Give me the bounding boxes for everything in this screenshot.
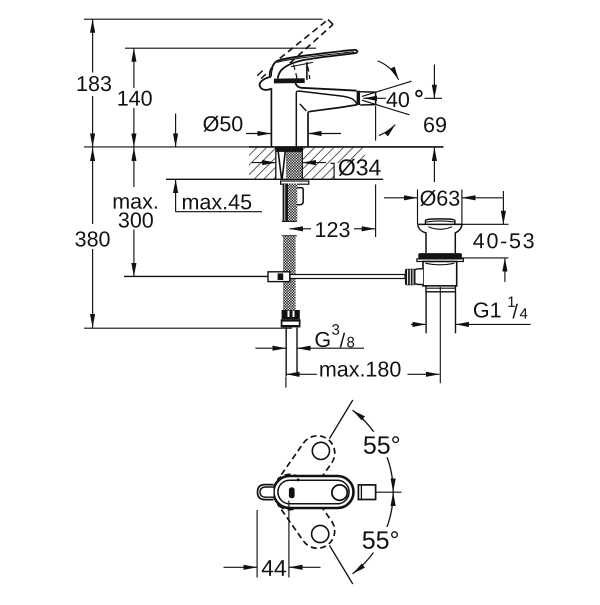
dimension Ø34 right arrow [302, 162, 326, 164]
drain plug cap face line [427, 220, 454, 223]
plan view 55 degree upper ray [330, 400, 353, 439]
handle crease line [291, 62, 313, 66]
svg-text:Ø34: Ø34 [338, 154, 382, 180]
40 degree lower ray [362, 100, 409, 115]
drain body [423, 262, 457, 286]
pop-up rod clamp screw [278, 273, 284, 280]
shank top shadow band under base [276, 147, 303, 152]
drain flange rim arc [428, 227, 452, 230]
drain flange left side [418, 224, 426, 253]
svg-text:max.45: max.45 [182, 190, 253, 214]
threaded shank in hole (braided texture) [286, 148, 302, 179]
extension line top (raised handle tip level) [84, 18, 323, 20]
svg-text:Ø50: Ø50 [203, 112, 244, 136]
dimension 140 line upper [133, 48, 135, 88]
drain Ø63 extension line right [461, 190, 463, 225]
countertop top surface line [249, 146, 444, 148]
drain collar band line [426, 287, 455, 289]
extension line aerator axis [425, 97, 443, 99]
pop-up rod outlined section to drain [290, 275, 405, 279]
drain plug cap [426, 219, 455, 224]
drain collar [426, 286, 455, 292]
max45 underline [176, 211, 262, 213]
dimension G1 1/4 left arrow [411, 323, 426, 325]
pop-up rod horizontal thin section [124, 275, 268, 277]
svg-text:G1: G1 [473, 298, 502, 322]
dimension 123 leader right [354, 228, 362, 230]
spout tab inner line [260, 487, 274, 497]
drain body top arc [426, 263, 455, 265]
dimension 123 left arrow [289, 228, 303, 230]
plan view swivel arc upper [353, 410, 394, 492]
dimension Ø34 left arrow [252, 162, 276, 164]
plan view swivel arc lower [353, 493, 394, 574]
svg-text:40: 40 [386, 88, 410, 112]
dimension Ø63 right arrow [476, 197, 503, 199]
spout tab plan [258, 485, 274, 500]
dimension G38 line right [310, 347, 364, 349]
raised handle dashed upper edge [280, 20, 328, 59]
dimension 380 line upper [92, 148, 94, 224]
svg-text:max.180: max.180 [319, 357, 402, 381]
extension line plug top [455, 223, 509, 225]
plan view 55 degree lower ray [330, 546, 353, 585]
svg-text:44: 44 [261, 555, 287, 581]
svg-text:183: 183 [76, 72, 112, 96]
40 degree symbol circle [416, 91, 422, 97]
dimension 40-53 upper arrow [502, 191, 504, 224]
extension line hose end [285, 377, 287, 388]
svg-text:55°: 55° [363, 432, 401, 460]
dimension max45 upper arrow [175, 114, 177, 147]
dimension Ø63 left arrow [384, 197, 403, 199]
spout top edge [295, 83, 356, 91]
drain Ø63 extension line left [417, 190, 419, 225]
faucet base right edge [307, 112, 309, 146]
svg-text:Ø63: Ø63 [420, 187, 461, 211]
countertop notch edge at Ø34 label [331, 163, 335, 179]
dimension max180 leader left [299, 373, 317, 375]
braided flex hose lower section [283, 236, 296, 310]
aerator outlet box [360, 92, 375, 105]
raised handle dashed lower edge [290, 24, 333, 63]
svg-text:123: 123 [315, 218, 351, 242]
dimension 183 line upper [92, 19, 94, 72]
dimension G1 1/4 leader right [469, 323, 531, 325]
spout front arris line [296, 91, 357, 104]
mounting washer under deck [281, 181, 309, 184]
cartridge circle [332, 485, 347, 500]
dimension G38 right arrow [297, 347, 310, 349]
faucet inner contour line [295, 92, 297, 147]
extension line 44 left [256, 510, 258, 578]
drain flange right side [455, 224, 462, 253]
hose break mark lower [282, 235, 297, 237]
screw hole circle lower [312, 525, 329, 542]
hose end nut lower flange [281, 319, 301, 327]
hose end nut upper [282, 310, 300, 319]
G3/8 hose tail [286, 328, 297, 377]
dimension 69 upper arrow [433, 65, 435, 99]
handle capsule inner contour [278, 480, 349, 504]
white backing for 55 labels [361, 432, 404, 458]
40 degree upper ray [362, 81, 412, 96]
svg-text:380: 380 [75, 227, 111, 251]
extension line at hose nut bottom [84, 327, 292, 329]
svg-text:55°: 55° [362, 527, 400, 555]
hose end nut lower white band [282, 322, 298, 325]
countertop hatched slab right of hole [302, 148, 334, 179]
svg-text:40-53: 40-53 [473, 229, 537, 253]
dimension 123 leader left [304, 228, 312, 230]
fixing wedge in hole [278, 152, 285, 179]
dimension max45 lower arrow [175, 179, 177, 211]
aerator dark band [357, 91, 361, 105]
aerator stub plan [358, 485, 375, 500]
dimension G38 left arrow [273, 347, 286, 349]
raised handle tip cap dash [328, 20, 333, 25]
countertop hatched upper band right [334, 148, 365, 163]
dimension Ø50 left arrow [246, 133, 271, 135]
handle inner top line [277, 52, 355, 62]
handle lever outline [260, 50, 358, 90]
index blob [289, 487, 295, 498]
faucet body upper right edge [306, 62, 308, 80]
handle capsule plan outline [274, 476, 354, 508]
smooth tube left of braided hose (dark with highlight) [283, 184, 288, 221]
mounting hole right edge [301, 147, 303, 179]
40 degree leader arrow [363, 97, 385, 99]
hose end nut slits [289, 311, 294, 317]
dimension 140 line lower [133, 108, 135, 147]
drain flange top [418, 223, 462, 225]
dimension 183 line lower [92, 96, 94, 147]
spout underside [308, 105, 357, 113]
drain tailpipe left edge [425, 292, 427, 333]
dimension 123 right arrow [362, 228, 376, 230]
dashed rotated handle lower [266, 468, 342, 555]
hose break mark upper [282, 220, 297, 222]
drain knob ridges [408, 269, 413, 284]
svg-text:3: 3 [331, 322, 339, 339]
faucet base left edge [270, 82, 272, 147]
dimension max180 leader right [408, 373, 427, 375]
svg-text:G: G [314, 328, 331, 352]
dimension 44 left arrow [224, 566, 245, 568]
extension line handle top level [125, 47, 316, 49]
40 degree lower arc [379, 125, 396, 136]
pop-up rod stub bracket [296, 188, 304, 205]
pop-up rod clamp fitting [268, 272, 290, 282]
40 degree upper arc [378, 61, 399, 80]
braided flex hose upper section [288, 184, 297, 221]
countertop hatched slab left of hole [249, 148, 276, 179]
spout shadow tick [300, 104, 306, 111]
drain rubber gasket [418, 253, 462, 259]
dimension max300 line upper [133, 148, 135, 187]
dimension G38 line left [255, 347, 273, 349]
handle black collar band [274, 78, 305, 83]
dimension max180 left arrow [286, 373, 299, 375]
svg-text:8: 8 [346, 334, 354, 351]
dashed rotated handle upper [266, 429, 342, 516]
drain seat washer [417, 259, 464, 262]
extension line gasket underside [462, 257, 509, 259]
drain side port [413, 269, 423, 285]
raised handle pivot arc dashes [257, 71, 266, 79]
extension line 44 right [288, 501, 290, 578]
dimension 69 lower arrow [433, 148, 435, 183]
extension line spout tip below deck [375, 184, 377, 237]
dimension 40-53 lower arrow [504, 258, 506, 282]
svg-text:/: / [512, 301, 518, 323]
countertop underside line [166, 178, 383, 180]
dimension G1 1/4 right arrow [456, 323, 469, 325]
svg-text:/: / [340, 330, 346, 352]
plan centerline [376, 491, 402, 493]
drain centerline extension [439, 287, 441, 383]
extension line spout tip above deck [375, 106, 377, 141]
mounting hole left edge [275, 147, 277, 179]
countertop top surface extension left [84, 146, 249, 148]
aerator stub inner line [360, 485, 362, 500]
svg-text:4: 4 [520, 306, 528, 323]
handle hidden cartridge dashes [294, 65, 310, 83]
screw hole circle upper [312, 442, 329, 459]
dimension max180 right arrow [427, 373, 440, 375]
svg-text:69: 69 [423, 113, 447, 137]
handle pivot inner arc [271, 68, 272, 77]
svg-text:140: 140 [117, 87, 153, 111]
dimension 380 line lower [92, 249, 94, 328]
dimension 44 right arrow [302, 566, 321, 568]
dimension Ø50 right arrow [308, 133, 341, 135]
drain knurled knob [405, 269, 416, 285]
svg-text:300: 300 [118, 208, 154, 232]
drain tailpipe right edge [455, 292, 457, 333]
dimension max300 line lower [133, 230, 135, 277]
index dot [297, 478, 300, 481]
